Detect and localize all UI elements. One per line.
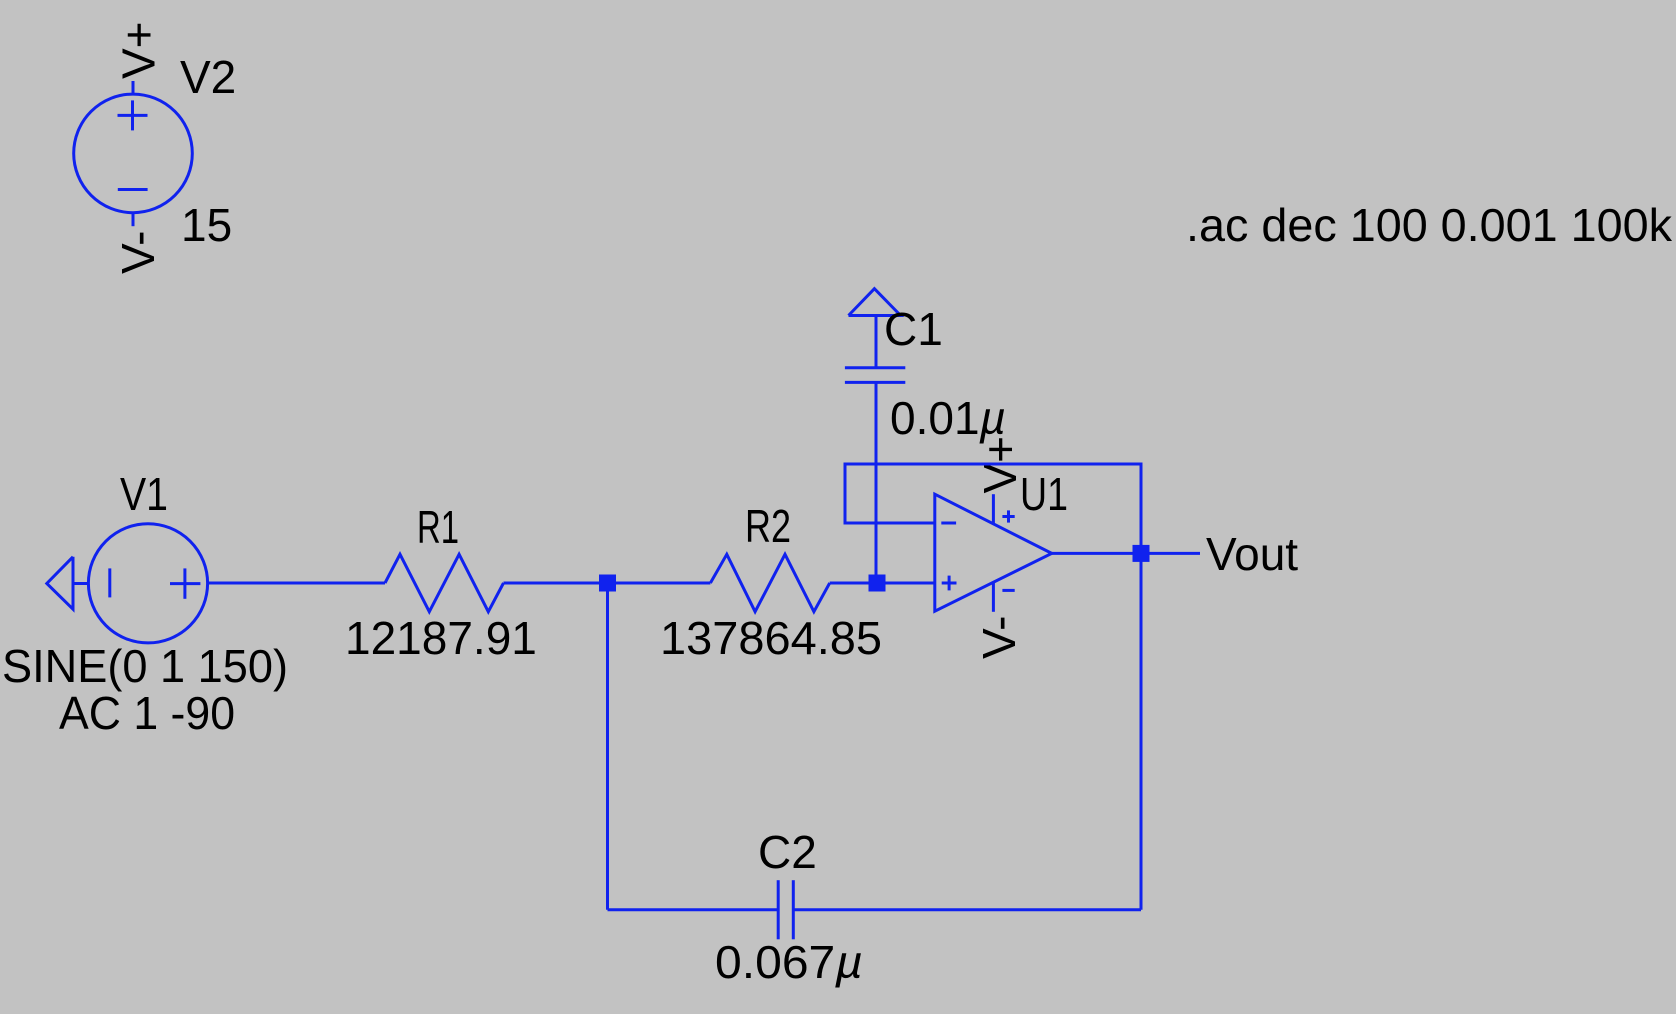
wire op-amp output <box>1052 552 1200 555</box>
svg-text:AC 1 -90: AC 1 -90 <box>59 687 235 739</box>
capacitor C2 <box>778 880 793 939</box>
node V+ flag (V2 top) <box>112 21 164 79</box>
svg-text:V+: V+ <box>112 21 164 79</box>
wire node A to R2 <box>616 582 710 585</box>
wire V1 to R1 <box>208 582 385 585</box>
node A junction <box>599 575 616 592</box>
wire feedback top rail <box>845 464 1141 553</box>
wire bottom right <box>793 908 1141 911</box>
svg-text:12187.91: 12187.91 <box>345 612 537 664</box>
wire node B to op-amp +in <box>877 582 935 585</box>
node V- flag (V2 bottom) <box>112 231 164 274</box>
value 0.067u <box>715 936 863 988</box>
node V- flag (U1 bottom) <box>973 616 1025 659</box>
node Vout junction <box>1133 545 1150 562</box>
svg-text:SINE(0 1 150): SINE(0 1 150) <box>2 640 288 692</box>
label U1 <box>1020 468 1068 520</box>
svg-text:V-: V- <box>973 616 1025 659</box>
capacitor C1 <box>845 316 905 383</box>
svg-text:R2: R2 <box>745 500 791 552</box>
svg-text:V1: V1 <box>120 468 168 520</box>
wire R2 to node B <box>830 582 877 585</box>
label C2 <box>758 826 817 878</box>
value 0.01u <box>890 392 1006 444</box>
label C1 <box>884 303 943 355</box>
voltage source V2 <box>74 81 193 226</box>
op-amp U1 <box>935 494 1052 612</box>
label R1 <box>417 501 459 553</box>
node V+ flag (U1 top) <box>974 436 1026 494</box>
svg-text:U1: U1 <box>1020 468 1068 520</box>
resistor R1 <box>385 554 504 611</box>
ground (V1 left) <box>47 557 88 609</box>
node B junction <box>869 575 886 592</box>
wire Vout down <box>1140 553 1143 909</box>
label R2 <box>745 500 791 552</box>
svg-text:0.067µ: 0.067µ <box>715 936 863 988</box>
svg-text:C1: C1 <box>884 303 943 355</box>
wire bottom left <box>608 908 779 911</box>
wire C1 branch (node B up) <box>875 382 878 583</box>
value SINE <box>2 640 288 692</box>
label V2 <box>180 51 236 103</box>
wire node A down <box>606 583 609 910</box>
value 12187.91 <box>345 612 537 664</box>
svg-text:.ac dec 100 0.001 100k: .ac dec 100 0.001 100k <box>1186 199 1673 251</box>
resistor R2 <box>710 554 829 611</box>
svg-text:137864.85: 137864.85 <box>660 612 882 664</box>
svg-text:V2: V2 <box>180 51 236 103</box>
svg-text:V-: V- <box>112 231 164 274</box>
svg-text:C2: C2 <box>758 826 817 878</box>
value AC <box>59 687 235 739</box>
wire R1 to node A <box>504 582 608 585</box>
label Vout <box>1206 528 1298 580</box>
svg-text:R1: R1 <box>417 501 459 553</box>
svg-text:Vout: Vout <box>1206 528 1298 580</box>
spice directive .ac <box>1186 199 1673 251</box>
ground (C1 top, rotated) <box>849 289 901 316</box>
voltage source V1 <box>88 524 207 643</box>
value 137864.85 <box>660 612 882 664</box>
label V1 <box>120 468 168 520</box>
value 15 <box>181 199 232 251</box>
svg-text:15: 15 <box>181 199 232 251</box>
